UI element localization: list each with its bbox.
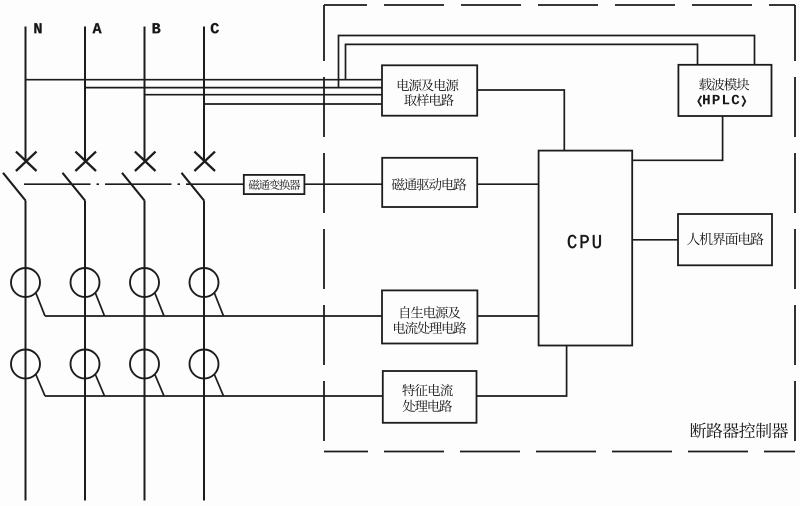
CT tap wire C1	[214, 293, 223, 316]
dashed enclosure border bottom	[324, 451, 795, 453]
CT tap wire N2	[36, 374, 45, 396]
phase line B upper wire	[144, 27, 146, 162]
breaker contact cross B	[135, 152, 156, 171]
CT tap wire A1	[95, 293, 104, 316]
block U8: characteristic current processing circuit 特征电流处理电路	[383, 371, 477, 423]
CT coil N2 (circle)	[11, 350, 40, 379]
breaker contact cross C	[194, 152, 215, 171]
wire: A bus up/over to carrier module (HPLC)	[339, 36, 755, 89]
breaker contact cross A	[75, 152, 96, 171]
block U6: human-machine interface circuit 人机界面电路	[678, 214, 772, 265]
wire: flux drive circuit to CPU left	[477, 183, 539, 185]
wire: N bus up/over to carrier module (HPLC)	[346, 44, 698, 79]
CT tap wire C2	[214, 374, 223, 396]
breaker blade N	[3, 173, 26, 201]
wire: CPU right to HMI box	[632, 239, 678, 241]
sampling bus wire B to power sampling box	[145, 94, 383, 96]
CT coil B2 (circle)	[130, 350, 159, 379]
phase line B lower wire	[144, 201, 146, 501]
block U4: flux drive circuit 磁通驱动电路	[382, 158, 477, 207]
sampling bus wire N to power sampling box	[26, 79, 383, 81]
CT tap wire B1	[155, 293, 164, 316]
enclosure label 断路器控制器 (circuit breaker controller)	[690, 423, 788, 439]
breaker blade C	[182, 173, 205, 201]
CT coil C2 (circle)	[190, 350, 219, 379]
phase line A lower wire	[84, 201, 86, 501]
block U3: flux converter 磁通变换器	[244, 175, 305, 194]
block U5: CPU	[539, 151, 633, 346]
phase label N	[34, 23, 41, 33]
CT tap wire N1	[36, 293, 45, 316]
CT bus wire row1 to self-powered current circuit	[45, 315, 382, 317]
phase label B	[153, 23, 161, 33]
CT tap wire B2	[155, 374, 164, 396]
phase line A upper wire	[84, 27, 86, 162]
CT coil N1 (circle)	[11, 268, 40, 297]
block U1: power & power-sampling circuit 电源及电源取样电路	[382, 65, 477, 115]
dashed enclosure border right	[794, 5, 796, 452]
wire: characteristic current box to CPU bottom	[477, 346, 567, 397]
CT coil B1 (circle)	[130, 268, 159, 297]
breaker blade A	[63, 173, 86, 201]
CT bus wire row2 to characteristic current circuit	[45, 395, 383, 397]
phase line C lower wire	[203, 201, 205, 501]
CT tap wire A2	[95, 374, 104, 396]
wire: power box output to CPU top	[477, 90, 564, 151]
wire: flux converter to flux drive circuit	[304, 183, 382, 185]
dashed enclosure border (circuit breaker controller) top	[324, 4, 795, 6]
phase label C	[211, 23, 219, 33]
phase line C upper wire	[203, 27, 205, 162]
breaker blade B	[122, 173, 145, 201]
phase line N lower wire	[25, 201, 27, 501]
breaker contact cross N	[16, 152, 37, 171]
wire: self-power box to CPU left	[477, 315, 538, 317]
CT coil C1 (circle)	[190, 268, 219, 297]
dashed enclosure border left	[323, 5, 325, 452]
CT coil A1 (circle)	[71, 268, 100, 297]
CT coil A2 (circle)	[71, 350, 100, 379]
block U7: self-generated power & current processing circuit 自生电源及电流处理电路	[382, 290, 477, 343]
phase label A	[93, 23, 102, 33]
phase line N upper wire	[25, 27, 27, 162]
trip bar linkage (dash-dot) to flux converter	[24, 183, 244, 185]
wire: HPLC bottom to CPU right	[632, 116, 722, 160]
sampling bus wire A to power sampling box	[85, 87, 382, 89]
block U2: carrier module 载波模块 (HPLC)	[678, 65, 771, 116]
sampling bus wire C to power sampling box	[204, 103, 382, 105]
